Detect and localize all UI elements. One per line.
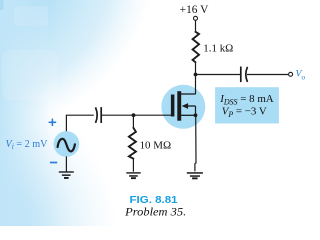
- plus sign: [49, 119, 57, 126]
- AC source sine wave: [58, 139, 75, 152]
- wire drain node down to drain lead: [195, 75, 197, 95]
- wire C2 to output terminal: [247, 74, 288, 76]
- svg-text:FIG. 8.81: FIG. 8.81: [130, 195, 179, 206]
- capacitor C2 (output coupling): [241, 67, 248, 83]
- transistor Q1 highlight circle: [161, 85, 205, 129]
- svg-text:10 MΩ: 10 MΩ: [140, 139, 172, 151]
- wire drain node to C2: [196, 74, 241, 76]
- wire source circle to ground: [65, 156, 67, 171]
- resistor RG 10 MOhm zigzag: [129, 127, 136, 159]
- output terminal: [289, 72, 293, 76]
- wire source to ground: [195, 115, 196, 171]
- wire RG to ground: [132, 159, 134, 172]
- ground (source Vs): [59, 171, 74, 179]
- resistor RD 1.1 kOhm zigzag: [193, 31, 199, 62]
- capacitor C1 (input coupling): [96, 107, 102, 123]
- minus sign: [50, 162, 57, 164]
- svg-text:+16 V: +16 V: [180, 4, 209, 16]
- supply terminal: [194, 16, 198, 20]
- svg-text:1.1 kΩ: 1.1 kΩ: [203, 42, 233, 54]
- ground (RG): [126, 172, 140, 179]
- node gate junction: [132, 113, 136, 117]
- svg-text:Problem 35.: Problem 35.: [124, 206, 186, 218]
- node source junction: [194, 113, 198, 117]
- wire C1 to gate: [102, 114, 172, 116]
- parameter box (IDSS, VP): [215, 87, 279, 123]
- wire RD to drain node: [195, 62, 197, 74]
- wire source top up and right to C1: [66, 115, 93, 131]
- AC source Vs circle: [54, 131, 80, 157]
- node drain junction: [194, 73, 198, 77]
- wire terminal to RD: [195, 20, 197, 31]
- wire gate node to RG: [132, 115, 134, 127]
- ground (source): [187, 172, 203, 179]
- transistor Q1 (n-channel depletion MOSFET): [171, 91, 196, 121]
